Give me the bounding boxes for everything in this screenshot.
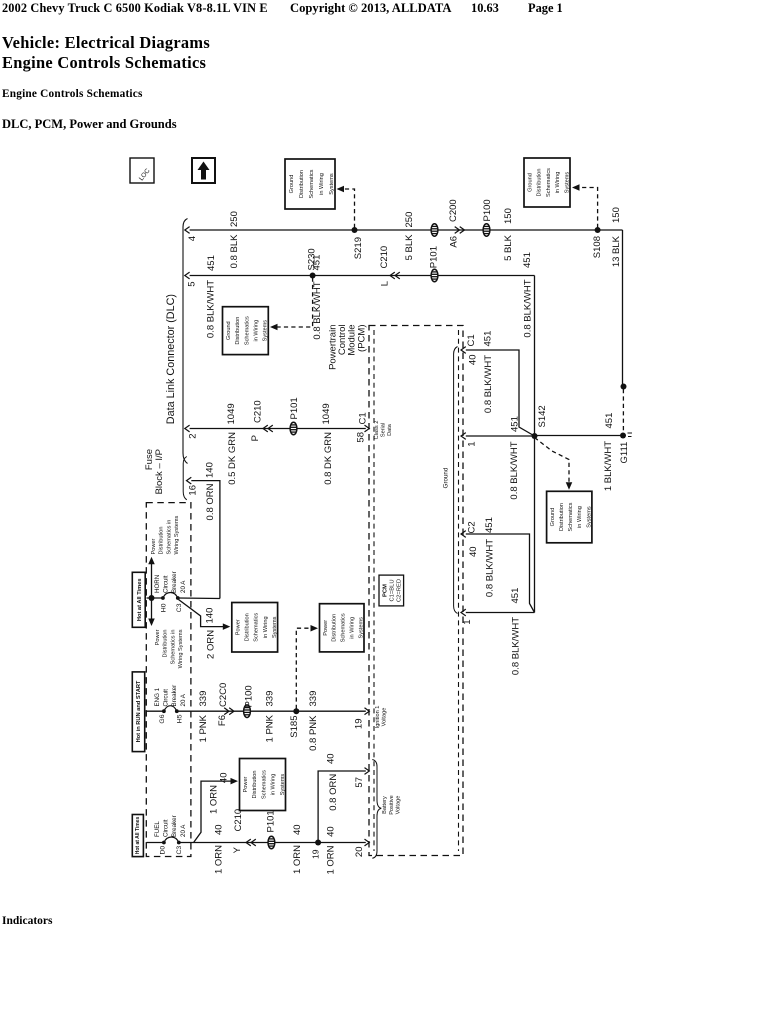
wire: 2 ORN 140 branch	[179, 600, 224, 627]
svg-text:0.8 PNK: 0.8 PNK	[308, 715, 319, 751]
title: Engine Controls Schematics	[2, 53, 206, 73]
reference box: Ground Distribution Schematics in Wiring Systems (top right)	[524, 158, 570, 207]
svg-text:G6: G6	[159, 714, 166, 723]
svg-text:Circuit: Circuit	[162, 689, 169, 707]
wire: 0.8 ORN 40 branch to pin 57	[318, 771, 366, 843]
svg-text:in Wiring: in Wiring	[555, 172, 561, 194]
svg-text:Systems: Systems	[586, 506, 592, 528]
tag: Hot at All Times (HORN)	[132, 572, 145, 627]
svg-text:Schematics: Schematics	[309, 169, 315, 198]
svg-text:C2C0: C2C0	[218, 683, 229, 707]
svg-text:1 ORN: 1 ORN	[326, 845, 337, 874]
svg-text:Hot in RUN and START: Hot in RUN and START	[136, 680, 142, 742]
svg-text:20: 20	[354, 847, 365, 858]
svg-text:in Wiring: in Wiring	[319, 173, 325, 195]
svg-text:2 ORN: 2 ORN	[206, 630, 217, 659]
svg-text:Power: Power	[155, 629, 161, 645]
wire: 1 ORN 40 battery feed	[179, 842, 366, 844]
wire: 0.8 ORN 140 from pin 16	[191, 481, 220, 599]
svg-text:in Wiring: in Wiring	[254, 320, 260, 342]
PCM pin 57	[365, 768, 370, 775]
svg-text:0.8 BLK/WHT: 0.8 BLK/WHT	[511, 617, 522, 675]
tag: Hot at All Times (FUEL)	[132, 815, 143, 857]
svg-text:Schematics: Schematics	[244, 316, 250, 345]
svg-text:Schematics: Schematics	[341, 613, 347, 642]
wire: feed to FUEL breaker	[147, 842, 164, 844]
svg-text:Serial: Serial	[381, 423, 387, 437]
svg-text:1 ORN: 1 ORN	[213, 845, 224, 874]
Fuse Block - I/P dashed box	[146, 503, 191, 857]
svg-text:C3: C3	[176, 603, 183, 612]
svg-text:40: 40	[218, 773, 229, 784]
reference box: Ground Distribution Schematics (S142)	[547, 491, 592, 543]
svg-text:Positive: Positive	[389, 795, 395, 815]
svg-text:0.8 BLK: 0.8 BLK	[229, 234, 240, 268]
svg-text:Distribution: Distribution	[332, 614, 338, 642]
svg-text:Distribution: Distribution	[159, 527, 165, 555]
tag: Hot in RUN and START	[132, 672, 144, 752]
svg-text:ENG 1: ENG 1	[154, 687, 161, 706]
svg-text:1 BLK/WHT: 1 BLK/WHT	[603, 441, 614, 491]
svg-text:C210: C210	[253, 400, 264, 423]
svg-text:Class 2: Class 2	[374, 421, 380, 440]
svg-text:C210: C210	[233, 809, 244, 832]
svg-text:Systems: Systems	[263, 320, 269, 342]
svg-text:Ground: Ground	[528, 173, 534, 192]
junction bus/HORN	[149, 595, 155, 601]
PCM pin 40 C2	[461, 531, 466, 538]
wire: PCM C2-40 ground 451	[466, 534, 535, 613]
connector P101 on wire 2	[290, 422, 297, 435]
svg-text:451: 451	[510, 416, 521, 432]
DLC pin 4	[185, 227, 190, 234]
PCM inner edge right	[458, 330, 460, 851]
svg-text:5: 5	[187, 282, 198, 287]
svg-text:451: 451	[206, 255, 217, 271]
wire: PCM C2-1 ground 451	[466, 612, 535, 614]
svg-text:451: 451	[483, 331, 494, 347]
reference box: Power Distribution Schematics (S185)	[320, 604, 365, 652]
svg-text:0.8 DK GRN: 0.8 DK GRN	[323, 432, 334, 485]
connector C210 pin P	[263, 425, 268, 432]
svg-text:58: 58	[356, 432, 367, 443]
dashed reference from S230	[276, 278, 313, 328]
svg-text:339: 339	[308, 691, 319, 707]
connector C2C0 F6	[224, 708, 229, 715]
svg-text:C200: C200	[448, 199, 459, 222]
svg-text:Power: Power	[151, 539, 157, 555]
svg-text:Breaker: Breaker	[171, 685, 178, 707]
svg-text:Systems: Systems	[280, 774, 286, 796]
svg-text:C2=RED: C2=RED	[397, 579, 403, 602]
svg-text:0.8 BLK/WHT: 0.8 BLK/WHT	[485, 539, 496, 597]
reference box: Ground Distribution Schematics in Wiring Systems (top left)	[285, 159, 335, 209]
PCM inner edge left	[373, 330, 375, 851]
svg-text:451: 451	[522, 252, 533, 268]
svg-text:Circuit: Circuit	[162, 819, 169, 837]
svg-text:Data Link Connector (DLC): Data Link Connector (DLC)	[165, 294, 177, 424]
fuse block pin 16	[187, 477, 192, 484]
reference box: Power Distribution Schematics (2 ORN)	[232, 603, 278, 653]
svg-text:16: 16	[188, 485, 199, 496]
svg-text:140: 140	[205, 462, 216, 478]
subheading: DLC, PCM, Power and Grounds	[2, 117, 177, 132]
svg-text:PCM: PCM	[383, 584, 389, 597]
connector P100 on ignition wire	[244, 705, 251, 718]
PCM id box: PCM C1=BLU C2=RED	[379, 575, 404, 606]
svg-text:H0: H0	[160, 603, 167, 612]
ground G111	[620, 433, 626, 439]
dashed reference from S142	[535, 438, 570, 485]
svg-text:40: 40	[213, 824, 224, 835]
wire: PCM C1-1 ground 451	[466, 435, 535, 437]
wire: PCM C1-40 ground 451	[466, 350, 535, 436]
svg-text:5 BLK: 5 BLK	[503, 234, 514, 261]
svg-text:P101: P101	[289, 397, 300, 419]
svg-text:Ground: Ground	[226, 321, 232, 340]
svg-text:Power: Power	[235, 619, 241, 635]
svg-text:P100: P100	[244, 685, 255, 707]
svg-text:1: 1	[462, 620, 473, 625]
svg-text:0.5 DK GRN: 0.5 DK GRN	[227, 432, 238, 485]
svg-text:Distribution: Distribution	[252, 771, 258, 799]
svg-text:150: 150	[503, 208, 514, 224]
svg-text:D0: D0	[159, 846, 166, 855]
svg-text:Schematics in: Schematics in	[170, 630, 176, 665]
svg-text:LOC: LOC	[138, 167, 152, 182]
wire: S142 to G111 1 BLK/WHT 451	[535, 435, 621, 437]
svg-text:20 A: 20 A	[180, 824, 187, 837]
svg-text:Power: Power	[243, 776, 249, 792]
svg-text:Ground: Ground	[550, 508, 556, 527]
svg-text:(PCM): (PCM)	[357, 325, 368, 352]
svg-text:in Wiring: in Wiring	[350, 617, 356, 639]
Ground bracket	[454, 347, 458, 614]
svg-text:451: 451	[484, 517, 495, 533]
svg-text:451: 451	[604, 413, 615, 429]
svg-text:Block – I/P: Block – I/P	[154, 449, 165, 494]
DLC pin 2	[185, 425, 190, 432]
svg-text:40: 40	[468, 546, 479, 557]
PCM pin 58	[365, 425, 370, 432]
wire: 1 PNK 339 ignition feed	[177, 710, 366, 712]
svg-text:C1: C1	[466, 334, 477, 346]
wire: DLC pin 5 0.8 BLK/WHT 451	[190, 275, 535, 277]
svg-text:4: 4	[187, 236, 198, 241]
PCM pin 1 C2	[461, 609, 466, 616]
svg-text:0.8 BLK/WHT: 0.8 BLK/WHT	[523, 279, 534, 337]
svg-text:Circuit: Circuit	[162, 575, 169, 593]
svg-text:0.8 BLK/WHT: 0.8 BLK/WHT	[509, 441, 520, 499]
wire: 0.8 BLK/WHT vertical to S142	[534, 276, 536, 613]
svg-text:Wiring Systems: Wiring Systems	[178, 629, 184, 668]
ENG 1 circuit breaker	[162, 709, 166, 713]
svg-text:250: 250	[404, 212, 415, 228]
LOC icon box	[130, 158, 154, 183]
svg-text:250: 250	[229, 211, 240, 227]
svg-text:1 PNK: 1 PNK	[265, 714, 276, 742]
splice S219	[352, 227, 358, 233]
svg-text:Power: Power	[323, 620, 329, 636]
svg-text:P: P	[250, 435, 261, 441]
svg-text:Schematics: Schematics	[261, 770, 267, 799]
svg-text:451: 451	[510, 588, 521, 604]
battery voltage brace	[372, 760, 381, 859]
splice S108	[595, 227, 601, 233]
power bus with continuation arrows	[151, 563, 153, 620]
svg-text:C1: C1	[358, 412, 369, 424]
svg-text:1: 1	[467, 442, 478, 447]
svg-text:Schematics: Schematics	[254, 613, 260, 642]
wire: bus to HORN breaker	[147, 597, 163, 599]
PCM pin 40 C1	[461, 347, 466, 354]
svg-text:Data: Data	[387, 423, 393, 436]
svg-text:Y: Y	[232, 846, 243, 853]
svg-text:339: 339	[265, 691, 276, 707]
splice S230	[310, 273, 316, 279]
svg-text:451: 451	[312, 255, 323, 271]
FUEL circuit breaker	[162, 841, 166, 845]
dashed reference from S219	[342, 189, 355, 228]
fuse block pin 16 bracket	[183, 457, 187, 500]
svg-text:20 A: 20 A	[180, 693, 187, 706]
dashed reference from S108	[578, 188, 598, 229]
svg-text:13 BLK: 13 BLK	[611, 235, 622, 267]
svg-text:Systems: Systems	[358, 617, 364, 639]
svg-text:1 ORN: 1 ORN	[208, 785, 219, 814]
svg-text:19: 19	[310, 849, 320, 859]
svg-text:in Wiring: in Wiring	[577, 506, 583, 528]
svg-text:Distribution: Distribution	[299, 170, 305, 198]
svg-text:S108: S108	[592, 236, 603, 258]
svg-text:40: 40	[292, 824, 303, 835]
svg-text:S142: S142	[537, 405, 548, 427]
svg-text:150: 150	[611, 207, 622, 223]
svg-text:F6: F6	[217, 715, 228, 726]
svg-text:Systems: Systems	[564, 172, 570, 194]
svg-text:P101: P101	[265, 810, 276, 832]
svg-text:Voltage: Voltage	[382, 708, 388, 727]
PCM pin 1 C1	[461, 433, 466, 440]
svg-text:140: 140	[205, 608, 216, 624]
wire: 13 BLK vertical run	[622, 230, 624, 387]
connector C210 pin Y	[246, 839, 251, 846]
svg-text:Distribution: Distribution	[245, 613, 251, 641]
svg-text:5 BLK: 5 BLK	[404, 234, 415, 261]
svg-text:G111: G111	[619, 442, 630, 464]
wire: 1 ORN 40 branch to reference	[194, 781, 231, 842]
DLC connector bracket	[183, 219, 188, 464]
svg-text:Distribution: Distribution	[235, 317, 241, 345]
print/arrow icon box	[192, 158, 215, 183]
battery feed junction	[315, 840, 321, 846]
svg-text:1049: 1049	[226, 403, 237, 424]
splice S185	[293, 708, 299, 714]
svg-text:HORN: HORN	[154, 575, 161, 593]
connector P101 on wire 5	[431, 269, 438, 282]
junction on 13 BLK	[621, 384, 627, 390]
connector P100 on wire 4	[483, 224, 490, 237]
svg-text:1 PNK: 1 PNK	[198, 714, 209, 742]
svg-text:1 ORN: 1 ORN	[292, 845, 303, 874]
svg-text:Breaker: Breaker	[171, 815, 178, 837]
svg-text:Ignition 1: Ignition 1	[375, 706, 381, 729]
svg-text:0.8 ORN: 0.8 ORN	[328, 774, 339, 811]
svg-text:Wiring Systems: Wiring Systems	[174, 515, 180, 554]
svg-text:Battery: Battery	[382, 796, 388, 814]
svg-text:in Wiring: in Wiring	[263, 616, 269, 638]
svg-text:C1=BLU: C1=BLU	[390, 579, 396, 601]
dashed reference from S185	[296, 628, 311, 709]
connector P101 on wire 4	[431, 224, 438, 237]
svg-text:Distribution: Distribution	[163, 630, 169, 658]
connector C200 A6	[455, 227, 460, 234]
svg-text:Breaker: Breaker	[171, 571, 178, 593]
subheading: Engine Controls Schematics	[2, 88, 143, 100]
svg-text:1049: 1049	[321, 403, 332, 424]
svg-text:0.8 BLK/WHT: 0.8 BLK/WHT	[206, 280, 217, 338]
svg-text:Hot at All Times: Hot at All Times	[137, 578, 143, 621]
svg-text:0.8 BLK/WHT: 0.8 BLK/WHT	[483, 355, 494, 413]
svg-text:Ground: Ground	[289, 175, 295, 194]
svg-text:Systems: Systems	[272, 616, 278, 638]
PCM module dashed box	[369, 326, 463, 856]
svg-text:H5: H5	[177, 714, 184, 723]
HORN circuit breaker	[161, 596, 165, 600]
svg-text:Distribution: Distribution	[559, 503, 565, 531]
svg-text:40: 40	[326, 753, 337, 764]
svg-text:A6: A6	[449, 236, 460, 248]
svg-text:S219: S219	[353, 237, 364, 259]
connector C210 pin L	[390, 272, 395, 279]
svg-text:FUEL: FUEL	[154, 821, 161, 837]
svg-text:0.8 ORN: 0.8 ORN	[205, 483, 216, 520]
svg-text:Systems: Systems	[329, 173, 335, 195]
wire: feed to ENG1 breaker	[147, 710, 164, 712]
svg-text:2: 2	[188, 434, 199, 439]
svg-text:339: 339	[198, 691, 209, 707]
wire: HORN C3 to pin16 loop	[178, 597, 220, 600]
dashed wire to G111	[622, 389, 624, 432]
PCM pin 19	[365, 708, 370, 715]
svg-text:P100: P100	[482, 199, 493, 221]
PCM pin 20	[365, 839, 370, 846]
svg-text:S185: S185	[289, 716, 300, 738]
svg-text:L: L	[380, 281, 391, 286]
wire: DLC pin 4 ground wire	[190, 229, 623, 231]
svg-text:Ground: Ground	[443, 467, 450, 488]
title: Vehicle: Electrical Diagrams	[2, 33, 210, 53]
reference box: Ground Distribution Schematics (S230)	[223, 307, 269, 355]
DLC pin 5	[185, 272, 190, 279]
svg-text:57: 57	[354, 777, 365, 788]
svg-text:Schematics: Schematics	[568, 502, 574, 531]
svg-text:P101: P101	[429, 246, 440, 268]
svg-text:Schematics in: Schematics in	[166, 520, 172, 555]
svg-text:Schematics: Schematics	[546, 168, 552, 197]
svg-text:C3: C3	[176, 846, 183, 855]
svg-text:C210: C210	[379, 246, 390, 269]
svg-text:Distribution: Distribution	[537, 169, 543, 197]
splice S142	[532, 433, 538, 439]
svg-text:0.8 BLK/WHT: 0.8 BLK/WHT	[312, 281, 323, 339]
connector P101 on battery wire	[268, 836, 275, 849]
svg-text:40: 40	[468, 355, 479, 366]
reference box: Power Distribution Schematics (1 ORN)	[240, 759, 286, 811]
svg-text:20 A: 20 A	[180, 580, 187, 593]
svg-text:in Wiring: in Wiring	[271, 774, 277, 796]
footer: Indicators	[2, 915, 52, 927]
svg-text:19: 19	[354, 719, 365, 730]
svg-text:C2: C2	[467, 521, 478, 533]
svg-text:Voltage: Voltage	[396, 796, 402, 815]
svg-text:40: 40	[326, 826, 337, 837]
wire: class 2 serial data 1049	[190, 428, 366, 430]
svg-text:Hot at All Times: Hot at All Times	[135, 817, 141, 855]
page header line	[2, 1, 268, 16]
